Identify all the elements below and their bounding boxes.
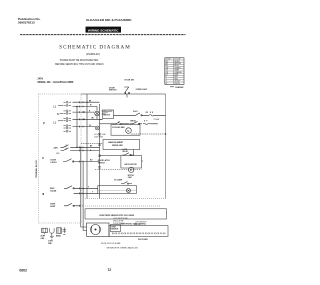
wire row y119 bbox=[73, 118, 103, 120]
indicator lamp bbox=[95, 126, 99, 130]
svg-text:OVEN: OVEN bbox=[111, 226, 116, 228]
svg-text:SHOWN WITH 3 WIRE LEADS 120V: SHOWN WITH 3 WIRE LEADS 120V bbox=[107, 247, 139, 250]
header publication number label bbox=[18, 17, 41, 25]
convection fan motor box bbox=[87, 223, 110, 236]
vertical wire x87 bbox=[86, 94, 88, 199]
svg-text:LIGHT: LIGHT bbox=[50, 206, 56, 208]
svg-text:L2: L2 bbox=[53, 121, 57, 125]
lower switch 2 symbol bbox=[64, 203, 81, 206]
schematic heading text 240V / model no bbox=[38, 77, 74, 84]
oven door light switch bbox=[124, 87, 129, 98]
svg-text:0602: 0602 bbox=[19, 269, 27, 273]
svg-text:N.C.: N.C. bbox=[57, 153, 61, 155]
svg-text:OVEN LIGHT: OVEN LIGHT bbox=[136, 89, 148, 91]
svg-text:T: T bbox=[92, 192, 93, 194]
svg-text:OVEN TEMP SENSOR RTD 1091 OHMS: OVEN TEMP SENSOR RTD 1091 OHMS bbox=[99, 215, 135, 217]
wire row y112 bbox=[73, 111, 95, 113]
header model line bbox=[86, 18, 132, 22]
relay board sub labels bbox=[113, 218, 147, 226]
terminal connector pair row 5 bbox=[64, 130, 72, 132]
svg-text:OV DR SW: OV DR SW bbox=[124, 79, 134, 81]
svg-text:BEFORE SERVICING THIS UNIT AND: BEFORE SERVICING THIS UNIT AND CHECK bbox=[55, 63, 104, 66]
small dot marker bbox=[42, 193, 44, 195]
oven lamp label bbox=[102, 110, 114, 115]
oven lamp bbox=[95, 107, 100, 120]
ground cluster symbol 4 earth bbox=[63, 228, 67, 235]
wire to latch box bbox=[100, 155, 121, 157]
svg-text:SENSOR: SENSOR bbox=[111, 229, 119, 231]
svg-text:COOLING FAN: COOLING FAN bbox=[112, 126, 125, 129]
junction dots mid bbox=[76, 147, 81, 148]
lock relay contact bbox=[123, 150, 134, 156]
lamp assembly top contact bbox=[121, 182, 132, 185]
svg-text:240V: 240V bbox=[38, 77, 44, 80]
svg-text:N: N bbox=[57, 112, 59, 116]
wire latch motor stub bbox=[142, 160, 143, 162]
svg-text:P24 CONN: P24 CONN bbox=[138, 238, 148, 241]
wire from light switch to right bbox=[100, 115, 133, 119]
svg-text:240V: 240V bbox=[54, 146, 59, 149]
ground cluster symbol 3 terminal bbox=[57, 228, 62, 234]
svg-text:NOTE: MOTOR & FAN: NOTE: MOTOR & FAN bbox=[101, 242, 121, 245]
latch motor box bbox=[121, 156, 142, 179]
svg-text:72: 72 bbox=[108, 268, 112, 272]
terminal connector pair row 4 bbox=[64, 124, 72, 129]
svg-text:GND: GND bbox=[48, 243, 53, 245]
svg-text:LATCH: LATCH bbox=[51, 161, 58, 164]
note text bottom bbox=[101, 242, 139, 249]
relay board box bbox=[85, 209, 167, 219]
vertical wire x80.8 bbox=[81, 147, 87, 227]
oven light switch box bbox=[103, 110, 114, 119]
svg-text:TERMINAL BLOCK: TERMINAL BLOCK bbox=[35, 159, 38, 178]
ground cluster label 2 bbox=[48, 241, 54, 246]
svg-text:BAKE ELEMENT: BAKE ELEMENT bbox=[108, 141, 124, 144]
EOC connector pin strip bbox=[112, 232, 166, 234]
svg-text:ELECTRONIC OVEN CONTROL: ELECTRONIC OVEN CONTROL bbox=[121, 224, 146, 226]
wire cooling fan to right bus bbox=[131, 133, 165, 135]
svg-text:LATCH MOTOR: LATCH MOTOR bbox=[124, 163, 137, 166]
header black banner WIRING SCHEMATIC bbox=[86, 27, 122, 33]
warning note text bbox=[55, 60, 104, 66]
svg-text:SCHEMATIC DIAGRAM: SCHEMATIC DIAGRAM bbox=[59, 45, 130, 51]
wire row y102 bbox=[73, 101, 100, 103]
svg-text:BAKE: BAKE bbox=[133, 110, 139, 113]
double pole switch row bbox=[61, 145, 100, 151]
wire row y126.5 bbox=[73, 126, 96, 128]
svg-text:L1: L1 bbox=[53, 105, 57, 109]
terminal connector pair row 2 bbox=[64, 110, 72, 115]
svg-text:SWITCH: SWITCH bbox=[98, 163, 106, 165]
svg-text:OV LAMP: OV LAMP bbox=[114, 179, 123, 182]
dashed feed wire to bake element bbox=[81, 142, 103, 144]
wire color legend table bbox=[165, 58, 184, 85]
svg-text:M: M bbox=[127, 130, 129, 133]
lower switch row 1 bbox=[50, 188, 57, 192]
junction dots left bus bbox=[76, 102, 87, 121]
svg-text:WHITE: WHITE bbox=[174, 83, 180, 85]
svg-text:GND: GND bbox=[41, 238, 46, 240]
lower switch row 1b wire bbox=[74, 192, 98, 194]
ground cluster symbol 2 chassis ground bbox=[50, 228, 55, 239]
wire L1 top feed bbox=[81, 93, 166, 95]
lower switch 1 symbol bbox=[64, 186, 98, 189]
console box right dashed edge bbox=[165, 94, 167, 199]
wire dashed to relay board bbox=[85, 205, 160, 207]
EOC board box bbox=[109, 226, 168, 237]
door latch row bbox=[51, 160, 58, 164]
svg-text:2585W 240V: 2585W 240V bbox=[112, 144, 124, 147]
door latch switch symbol bbox=[63, 159, 100, 163]
svg-text:BAKE: BAKE bbox=[56, 235, 62, 238]
title SCHEMATIC DIAGRAM bbox=[59, 45, 130, 57]
svg-text:5995376213: 5995376213 bbox=[18, 20, 35, 24]
oven lamp assembly box bbox=[98, 186, 137, 194]
small relay contact under switch bbox=[113, 122, 130, 125]
svg-text:MODEL NO. : GLEA/PLEA 66BK: MODEL NO. : GLEA/PLEA 66BK bbox=[38, 81, 74, 84]
oven sensor block bbox=[111, 225, 121, 232]
svg-text:SWITCH: SWITCH bbox=[103, 114, 110, 116]
svg-text:2750W: 2750W bbox=[154, 119, 160, 121]
svg-text:CLEAN: CLEAN bbox=[50, 189, 57, 192]
dashed wire door latch bbox=[95, 168, 142, 170]
terminal lead stubs bbox=[58, 105, 63, 120]
header horizontal rule bbox=[20, 34, 186, 36]
cooling fan box bbox=[111, 125, 140, 136]
svg-text:CHASSIS: CHASSIS bbox=[175, 86, 184, 89]
bake row components bbox=[133, 112, 166, 117]
ground cluster label 1 bbox=[41, 236, 46, 241]
cooling fan feed labels bbox=[94, 134, 106, 138]
svg-text:P: P bbox=[43, 122, 46, 126]
door switch labels bbox=[109, 79, 148, 91]
svg-text:(PA96142): (PA96142) bbox=[86, 52, 100, 56]
terminal connector pair row 3 bbox=[64, 117, 72, 122]
svg-text:120V 60HZ: 120V 60HZ bbox=[94, 137, 104, 139]
door latch switch label bbox=[98, 159, 111, 164]
broil row bbox=[100, 120, 158, 125]
terminal connector pair row 1 bbox=[64, 101, 72, 107]
vertical wire x83.1 bbox=[83, 162, 86, 231]
svg-text:BROIL: BROIL bbox=[131, 121, 137, 123]
vertical wire x99.5 bbox=[99, 104, 101, 199]
wire row y106.5 bbox=[73, 106, 98, 108]
terminal block P outline bbox=[39, 94, 82, 223]
chassis connector pin marks on bus crossings bbox=[80, 101, 84, 207]
svg-text:POWER MUST BE DISCONNECTED: POWER MUST BE DISCONNECTED bbox=[60, 60, 99, 62]
bake element box bbox=[103, 140, 140, 150]
svg-text:WIRING SCHEMATIC: WIRING SCHEMATIC bbox=[88, 28, 119, 32]
lower switch row 2 label bbox=[50, 204, 56, 208]
svg-text:GLEA/GLEB 66K & PLEA/66BK: GLEA/GLEB 66K & PLEA/66BK bbox=[86, 18, 132, 22]
vertical wire x77 bbox=[76, 107, 78, 148]
ground cluster symbol 1 surface ground bbox=[42, 228, 48, 234]
svg-text:MOTOR: MOTOR bbox=[128, 175, 135, 177]
wire color labels bbox=[88, 100, 149, 193]
connector ticks on vertical bus bbox=[98, 134, 101, 168]
legend footnote chassis ground bbox=[170, 86, 184, 89]
svg-text:SWITCH: SWITCH bbox=[109, 90, 117, 92]
svg-text:OR: OR bbox=[146, 112, 149, 114]
bake label bbox=[133, 110, 159, 121]
console box bottom dashed edge bbox=[85, 198, 166, 200]
svg-text:D: D bbox=[42, 156, 45, 160]
lock relay label bbox=[123, 149, 129, 153]
terminal labels L1 N L2 bbox=[53, 105, 59, 125]
